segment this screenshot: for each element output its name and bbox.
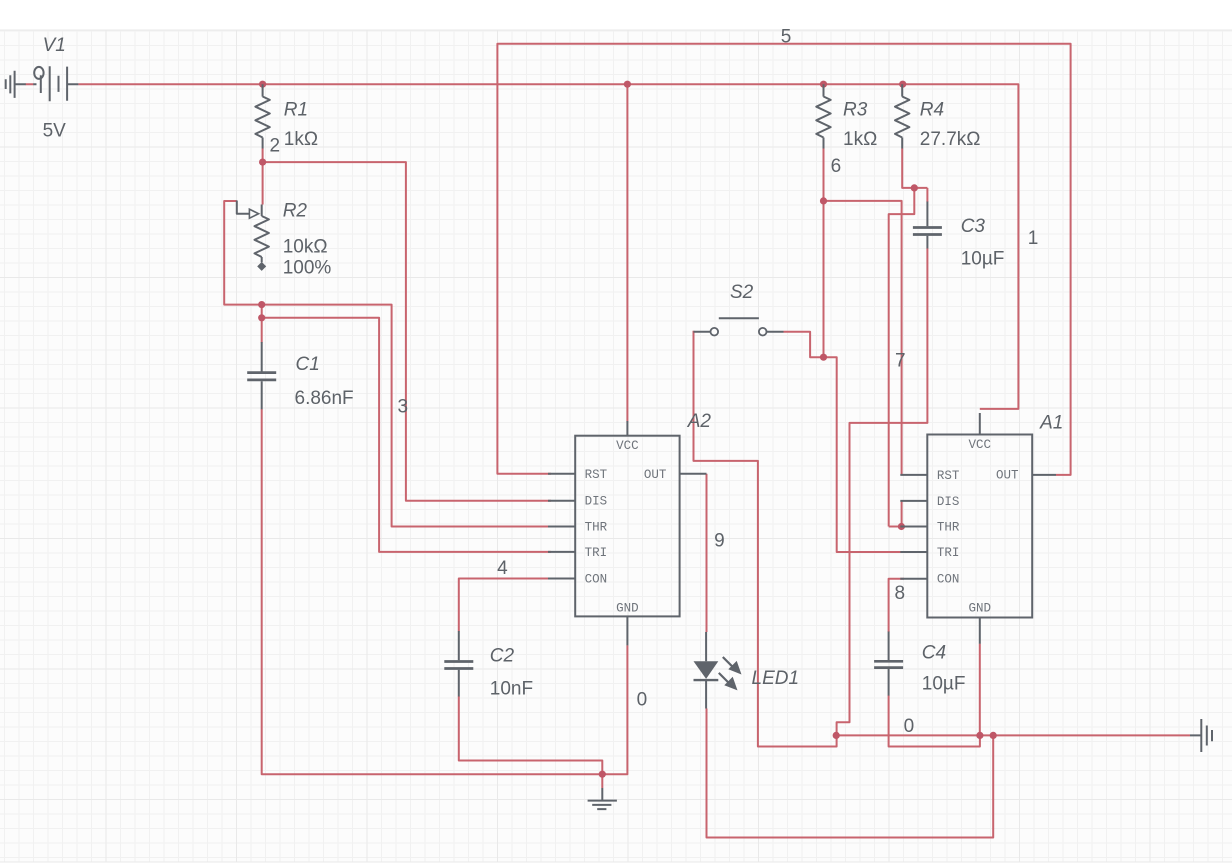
svg-text:0: 0 [904, 716, 915, 737]
svg-text:S2: S2 [730, 282, 754, 303]
svg-text:C2: C2 [490, 646, 515, 667]
svg-text:4: 4 [497, 558, 508, 579]
svg-text:2: 2 [270, 136, 281, 157]
svg-text:5: 5 [781, 26, 792, 47]
svg-text:GND: GND [616, 602, 639, 616]
svg-text:TRI: TRI [937, 546, 960, 560]
svg-text:100%: 100% [283, 257, 332, 278]
svg-text:6.86nF: 6.86nF [295, 388, 354, 409]
svg-text:CON: CON [937, 573, 960, 587]
svg-text:TRI: TRI [585, 546, 608, 560]
svg-text:C1: C1 [296, 354, 320, 375]
svg-text:CON: CON [585, 573, 608, 587]
svg-text:0: 0 [637, 690, 648, 711]
svg-text:VCC: VCC [969, 438, 992, 452]
svg-text:R4: R4 [920, 99, 944, 120]
svg-text:27.7kΩ: 27.7kΩ [920, 129, 981, 150]
svg-text:A2: A2 [687, 411, 712, 432]
svg-text:9: 9 [714, 530, 725, 551]
svg-text:THR: THR [937, 521, 960, 535]
svg-text:10µF: 10µF [922, 673, 966, 694]
svg-text:A1: A1 [1039, 413, 1063, 434]
svg-text:OUT: OUT [996, 468, 1019, 482]
svg-text:GND: GND [969, 601, 992, 615]
svg-text:C3: C3 [961, 216, 986, 237]
svg-text:DIS: DIS [937, 495, 960, 509]
svg-text:1kΩ: 1kΩ [284, 129, 318, 150]
svg-text:10kΩ: 10kΩ [283, 237, 328, 258]
svg-text:DIS: DIS [585, 495, 608, 509]
svg-text:R2: R2 [283, 200, 308, 221]
svg-text:8: 8 [895, 583, 906, 604]
svg-text:VCC: VCC [616, 439, 639, 453]
svg-text:R3: R3 [843, 99, 868, 120]
svg-text:10µF: 10µF [961, 249, 1005, 270]
svg-text:C4: C4 [922, 642, 946, 663]
svg-text:1kΩ: 1kΩ [843, 129, 877, 150]
svg-text:3: 3 [398, 397, 409, 418]
svg-text:V1: V1 [43, 35, 66, 56]
svg-text:10nF: 10nF [490, 679, 533, 700]
svg-text:1: 1 [1028, 228, 1039, 249]
svg-text:6: 6 [831, 156, 842, 177]
svg-text:THR: THR [585, 521, 608, 535]
svg-text:R1: R1 [284, 100, 308, 121]
svg-text:5V: 5V [43, 120, 67, 141]
svg-text:7: 7 [895, 350, 906, 371]
svg-text:RST: RST [937, 469, 960, 483]
svg-text:OUT: OUT [644, 468, 667, 482]
svg-text:RST: RST [585, 468, 608, 482]
svg-text:LED1: LED1 [752, 668, 800, 689]
